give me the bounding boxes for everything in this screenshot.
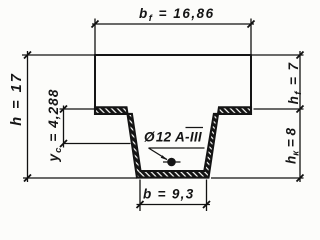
dimension h_f = 7 and h_k = 8 (right): [211, 51, 304, 182]
svg-text:b = 9,3: b = 9,3: [143, 187, 195, 202]
svg-text:h = 17: h = 17: [9, 72, 25, 126]
dimension b_f = 16,86 (top): [92, 19, 255, 56]
dimension b = 9,3 (bottom): [137, 180, 211, 212]
T-section flange outline: [95, 54, 251, 107]
rebar dot (12 mm bar): [163, 158, 181, 167]
dimension h = 17 (left): [22, 51, 137, 182]
dimension y_c = 4,288 (inner left, to centroid line): [60, 106, 131, 148]
hatched band: flange underside, web sides, web bottom: [95, 107, 251, 177]
rebar label Ø12 A-III with leader: [144, 128, 205, 161]
svg-text:Ø12 A-III: Ø12 A-III: [144, 130, 202, 145]
